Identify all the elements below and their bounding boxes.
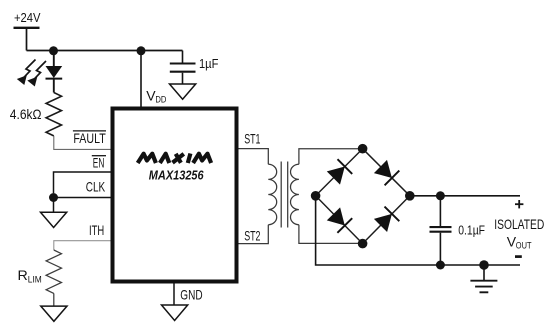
svg-text:R: R (18, 268, 28, 284)
wire R1 to FAULT pin (54, 136, 111, 150)
svg-text:0.1µF: 0.1µF (458, 222, 485, 237)
label plus terminal (515, 200, 523, 208)
wire junction to LED anode (53, 51, 55, 67)
svg-text:MAX13256: MAX13256 (149, 168, 204, 183)
power rail bar +24V (14, 27, 40, 29)
label minus terminal (515, 255, 522, 258)
wire secondary bottom to bridge bottom node (299, 225, 363, 244)
wire rail to capacitor C1 (182, 51, 184, 63)
wire junction to ground (53, 198, 55, 213)
LED D5 (46, 66, 63, 79)
wire bridge right node to plus terminal (410, 195, 520, 197)
svg-text:ISOLATED: ISOLATED (494, 216, 544, 232)
diode D4 (374, 207, 399, 232)
wire CLK pin (54, 197, 112, 199)
diode D3 (327, 207, 352, 232)
svg-text:ST1: ST1 (244, 130, 260, 146)
transformer T1 secondary winding (290, 164, 298, 224)
wire transformer primary to ST2 (239, 225, 269, 244)
earth ground G5 (470, 281, 497, 293)
capacitor C1 1uF (170, 64, 196, 72)
resistor R1 4.6k zigzag (46, 93, 61, 136)
junction LED branch (49, 46, 58, 55)
label VDD (146, 87, 166, 105)
node bridge right (405, 191, 415, 201)
ground G3 (C1) (170, 84, 196, 99)
label EN with overline (92, 154, 106, 170)
transformer T1 core (281, 162, 288, 228)
wire GND pin (173, 284, 175, 305)
label VOUT (507, 233, 532, 251)
ground G2 (RLIM) (41, 306, 67, 321)
wire to earth ground (483, 265, 485, 281)
diode D2 (374, 160, 399, 185)
wire C2 top lead (439, 196, 441, 226)
svg-text:GND: GND (180, 286, 202, 302)
svg-text:+24V: +24V (14, 10, 41, 25)
junction VDD branch (137, 46, 146, 55)
wire LED cathode to resistor R1 (53, 79, 55, 93)
wire R2 to ground (53, 293, 55, 306)
ground G4 (GND pin) (162, 305, 188, 321)
node bridge top (358, 144, 368, 154)
diode D1 (327, 159, 352, 184)
label RLIM (18, 268, 42, 285)
junction earth ground (479, 260, 489, 270)
label FAULT with overline (73, 130, 106, 146)
bridge rectifier edges (316, 149, 410, 244)
svg-text:ITH: ITH (89, 222, 104, 238)
junction EN/CLK (49, 193, 58, 202)
wire +24V vertical drop (26, 28, 28, 51)
wire C1 to ground (182, 73, 184, 84)
wire EN pin to ground chain (54, 172, 112, 193)
wire VDD pin vertical (140, 51, 142, 108)
svg-text:ST2: ST2 (244, 227, 260, 243)
op-amp U1 MAX13256 box (113, 109, 237, 282)
svg-text:4.6kΩ: 4.6kΩ (10, 107, 42, 122)
node bridge left (311, 191, 321, 201)
svg-text:EN: EN (93, 154, 105, 170)
wire C2 bottom lead (439, 233, 441, 265)
svg-text:DD: DD (155, 95, 166, 106)
junction C2 top (436, 191, 445, 200)
svg-text:OUT: OUT (516, 240, 532, 251)
wire top rail horizontal (27, 50, 183, 52)
svg-text:1µF: 1µF (199, 56, 218, 71)
capacitor C2 0.1uF (430, 227, 452, 232)
junction C2 bottom (436, 261, 445, 270)
svg-text:LIM: LIM (28, 274, 42, 285)
wire ITH pin (54, 241, 111, 250)
resistor R2 RLIM zigzag (46, 250, 61, 293)
wire ST1 to transformer primary (239, 149, 269, 165)
LED light emission arrows (23, 60, 46, 80)
ground G1 (EN/CLK) (41, 212, 67, 227)
node bridge bottom (358, 239, 368, 249)
Maxim logo (138, 154, 211, 164)
svg-text:CLK: CLK (86, 179, 106, 195)
wire secondary top to bridge top node (299, 149, 363, 165)
transformer T1 primary winding (268, 164, 276, 224)
svg-text:FAULT: FAULT (73, 130, 106, 146)
wire bridge left node to bottom rail (316, 196, 520, 265)
